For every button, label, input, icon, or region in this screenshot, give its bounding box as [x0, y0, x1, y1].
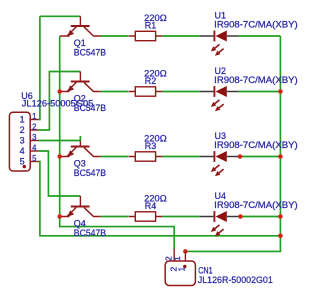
svg-text:1: 1 [173, 256, 182, 261]
svg-text:3: 3 [32, 133, 36, 142]
svg-text:R2: R2 [145, 76, 157, 86]
junction at U4 cathode wire [238, 214, 243, 219]
U6 pin 5 [30, 161, 38, 163]
svg-text:CN1: CN1 [198, 266, 213, 276]
svg-text:R4: R4 [145, 201, 157, 211]
wire LED U3 to right bus [239, 156, 281, 158]
junction on emitter bus at Q3 [57, 154, 62, 159]
wire U6 pin 5 down and across to right bus junction [39, 162, 281, 236]
svg-text:5: 5 [20, 157, 25, 167]
svg-text:Q3: Q3 [74, 159, 86, 169]
junction on right bus at U4 [278, 214, 283, 219]
wire collector of Q1 to R1 [101, 35, 129, 37]
wire collector of Q2 to R2 [101, 91, 129, 93]
svg-text:IR908-7C/MA(XBY): IR908-7C/MA(XBY) [214, 200, 298, 210]
svg-text:IR908-7C/MA(XBY): IR908-7C/MA(XBY) [214, 75, 298, 85]
wire R2 to LED U2 [162, 91, 200, 93]
wire U6 pin 2 to Q2 top lead [39, 72, 81, 131]
svg-text:JL126-50005G05: JL126-50005G05 [22, 99, 94, 109]
resistor R1 [129, 31, 162, 40]
svg-text:1: 1 [177, 267, 187, 272]
resistor R2 [129, 87, 162, 96]
svg-text:BC547B: BC547B [74, 48, 106, 58]
wire U6 pin 4 to Q4 top lead [39, 151, 81, 196]
resistor R4 [129, 212, 162, 221]
transistor Q2 [60, 72, 101, 92]
pin-1 mark dot inside U6 [23, 165, 26, 168]
U6 pin 3 [30, 140, 38, 142]
svg-text:2: 2 [32, 123, 36, 132]
wire LED U1 to right bus [239, 35, 281, 37]
LED U4 [200, 211, 239, 236]
U6 pin 4 [30, 150, 38, 152]
svg-text:1: 1 [32, 112, 36, 121]
svg-text:4: 4 [32, 144, 37, 153]
wire vertical from top wire down to U6 pin 1 [39, 16, 40, 119]
transistor Q1 [60, 16, 101, 36]
svg-text:R1: R1 [145, 20, 157, 30]
wire R3 to LED U3 [162, 156, 200, 158]
svg-text:IR908-7C/MA(XBY): IR908-7C/MA(XBY) [214, 140, 298, 150]
LED U2 [200, 86, 239, 111]
wire R1 to LED U1 [162, 35, 200, 37]
transistor Q4 [60, 196, 101, 217]
svg-text:BC547B: BC547B [74, 228, 106, 238]
svg-text:3: 3 [20, 136, 25, 146]
resistor R3 [129, 152, 162, 161]
U6 pin 1 [30, 119, 38, 121]
junction on right bus at U3 [278, 154, 283, 159]
wire top from pin-1 riser to Q1 top lead [40, 15, 81, 17]
transistor Q3 [60, 136, 101, 157]
CN1 pin 1 [184, 251, 186, 261]
wire collector of Q4 to R4 [101, 216, 129, 218]
wire emitter bus from Q1 emitter down to CN1 pin 2 [60, 36, 175, 249]
pin-1 mark dot inside CN1 [183, 265, 186, 268]
svg-text:Q1: Q1 [74, 38, 86, 48]
junction at U3 cathode wire [238, 154, 243, 159]
U6 pin 2 [30, 129, 38, 131]
svg-text:Q4: Q4 [74, 219, 86, 229]
wire R4 to LED U4 [162, 216, 200, 218]
wire right cathode bus down to CN1 pin 1 [185, 36, 280, 251]
svg-text:R3: R3 [145, 141, 157, 151]
wire collector of Q3 to R3 [101, 156, 129, 158]
svg-text:4: 4 [20, 146, 25, 156]
wire LED U2 to right bus [239, 91, 281, 93]
junction on emitter bus at Q4 [57, 214, 62, 219]
svg-text:5: 5 [32, 154, 37, 163]
junction right bus with pin-5 wire [278, 234, 283, 239]
junction on emitter bus at Q2 [57, 89, 62, 94]
svg-text:1: 1 [20, 115, 25, 125]
CN1 pin 2 [173, 249, 175, 261]
wire LED U4 to right bus [239, 216, 281, 218]
wire U6 pin 3 to Q3 top lead [39, 136, 81, 141]
junction at CN1 pin 1 [183, 249, 188, 254]
svg-text:2: 2 [20, 125, 25, 135]
connector U6 body [9, 112, 30, 171]
svg-text:BC547B: BC547B [74, 168, 106, 178]
svg-text:2: 2 [164, 256, 173, 261]
connector CN1 body [165, 261, 195, 286]
junction on right bus at U2 [278, 89, 283, 94]
LED U1 [200, 31, 239, 56]
svg-text:IR908-7C/MA(XBY): IR908-7C/MA(XBY) [214, 20, 298, 30]
svg-text:JL126R-50002G01: JL126R-50002G01 [198, 275, 273, 285]
LED U3 [200, 151, 239, 176]
